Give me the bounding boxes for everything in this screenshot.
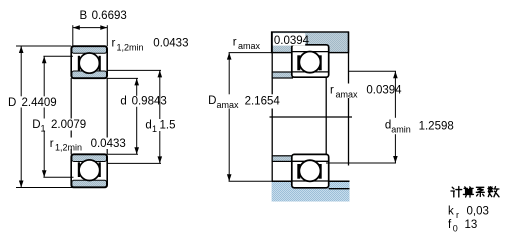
ball (bottom): [79, 160, 100, 181]
housing bore line (bottom right): [329, 188, 350, 190]
char 数: [488, 187, 499, 197]
raceway bars beside ball (top): [78, 56, 80, 71]
dimension B: extension lines: [73, 25, 108, 46]
svg-text:13: 13: [465, 219, 478, 231]
char 系: [476, 187, 484, 196]
svg-text:0.0433: 0.0433: [91, 138, 126, 150]
dimension D: extension lines: [16, 45, 71, 47]
housing top band: [272, 32, 349, 53]
svg-text:2.0079: 2.0079: [51, 119, 86, 131]
dimension d: extension lines: [107, 77, 138, 79]
inner ring band (top): [72, 71, 107, 78]
bearing bottom section (right view): [292, 154, 329, 187]
shaft shoulder strip (top left): [272, 72, 292, 78]
dimension d: line: [107, 78, 138, 154]
label D_amax 2.1654: [207, 94, 281, 108]
raceway bars beside ball (bottom): [78, 162, 80, 177]
shaft shoulder strip (bottom left): [272, 156, 292, 162]
char 算: [463, 187, 473, 197]
svg-text:0.0394: 0.0394: [274, 35, 310, 47]
dimension d1: extension lines: [107, 69, 161, 71]
svg-text:r: r: [112, 38, 116, 50]
dimension D1: line: [43, 56, 73, 177]
svg-text:0: 0: [453, 224, 458, 234]
inner ring band (bottom): [72, 155, 107, 162]
svg-text:amin: amin: [391, 125, 411, 135]
svg-text:D: D: [208, 95, 216, 107]
svg-text:r: r: [456, 210, 459, 220]
svg-text:1: 1: [152, 124, 157, 134]
dimension B: arrows: [73, 25, 80, 30]
svg-text:0,03: 0,03: [467, 206, 489, 218]
svg-text:r: r: [233, 37, 237, 49]
svg-text:0.0394: 0.0394: [366, 85, 402, 97]
svg-text:1,2min: 1,2min: [117, 43, 144, 53]
label d1 1.5: [144, 119, 172, 131]
char 计: [451, 187, 462, 197]
dimension d1: line: [107, 70, 161, 163]
ball (right top): [299, 52, 320, 73]
svg-text:0.6693: 0.6693: [92, 10, 127, 22]
svg-text:r: r: [330, 85, 334, 97]
raceway bars beside ball (right bottom): [297, 164, 300, 179]
dimension D_amax: extension lines: [229, 52, 272, 54]
label 计算系数 (drawn as vector strokes, CJK font unavailable): [451, 187, 499, 197]
outer ring band (bottom): [72, 180, 107, 187]
label d_amin 1.2598: [383, 118, 453, 134]
svg-text:d: d: [120, 96, 126, 108]
label D1 2.0079: [31, 119, 83, 131]
shaft right end face line: [325, 77, 327, 154]
dimension d_amin: line: [326, 71, 396, 163]
housing bottom block top edge: [272, 180, 350, 182]
shaft axis line: [270, 116, 353, 118]
bearing top section (left view): [71, 46, 107, 78]
dimension d_amin: extension lines: [349, 70, 397, 72]
label D 2.4409: [7, 96, 57, 107]
svg-text:B: B: [80, 10, 88, 22]
label d 0.9843: [119, 96, 159, 107]
svg-text:0.9843: 0.9843: [132, 96, 167, 108]
svg-text:1.2598: 1.2598: [419, 121, 454, 133]
label r_amax (middle): [329, 84, 404, 99]
label r1,2min 0.0433 (lower): [49, 138, 126, 150]
svg-text:0.0433: 0.0433: [153, 38, 188, 50]
outer ring band (top): [72, 47, 107, 54]
shaft left face line: [271, 32, 273, 181]
wire: bearing side face lines between sections: [71, 78, 107, 155]
bearing bottom section (left view): [71, 154, 107, 187]
ball (top): [79, 53, 99, 73]
svg-text:2.4409: 2.4409: [22, 97, 57, 109]
dimension D: line: [16, 46, 72, 188]
svg-text:1: 1: [41, 124, 46, 134]
svg-text:1.5: 1.5: [160, 120, 176, 132]
label 0.0394 in housing band (white box): [273, 33, 305, 45]
raceway bars beside ball (right top): [297, 55, 300, 70]
svg-text:amax: amax: [238, 41, 261, 51]
svg-text:D: D: [8, 97, 16, 109]
svg-text:r: r: [50, 138, 54, 150]
svg-text:d: d: [145, 120, 151, 132]
housing bottom block: [272, 181, 350, 201]
svg-text:1,2min: 1,2min: [55, 143, 82, 153]
svg-text:2.1654: 2.1654: [245, 96, 281, 108]
svg-text:amax: amax: [217, 100, 240, 110]
dimension D_amax: line: [229, 53, 272, 182]
svg-text:amax: amax: [336, 90, 359, 100]
ball (right bottom): [299, 160, 320, 181]
svg-text:k: k: [448, 206, 454, 218]
svg-text:D: D: [32, 119, 40, 131]
dimension B: line: [73, 27, 108, 29]
bearing top section (right view): [292, 45, 329, 77]
housing right face line: [348, 32, 350, 166]
dimension D1: extension lines: [43, 55, 73, 57]
